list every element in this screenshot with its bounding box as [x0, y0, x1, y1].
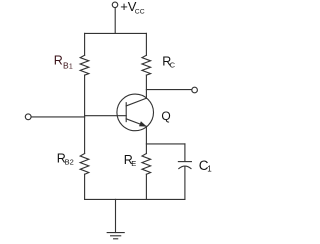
resistor RE: [142, 154, 151, 175]
transistor Q collector diagonal: [126, 98, 146, 106]
wire capacitor bottom lead: [184, 166, 186, 199]
svg-text:E: E: [131, 159, 136, 168]
wire right rail upper: [145, 33, 147, 55]
wire collector rail: [145, 75, 147, 98]
transistor Q emitter arrow: [139, 121, 147, 126]
svg-text:Q: Q: [161, 109, 170, 123]
resistor RC: [142, 55, 151, 75]
svg-text:C: C: [170, 61, 176, 70]
capacitor C1 bottom plate: [179, 166, 191, 169]
capacitor C1 top plate: [178, 161, 191, 163]
wire emitter lead: [145, 126, 147, 153]
transistor Q base bar: [125, 103, 127, 122]
wire left rail lower: [84, 174, 86, 199]
wire left rail middle: [84, 75, 86, 153]
svg-text:R: R: [54, 53, 63, 67]
svg-text:B2: B2: [65, 158, 74, 167]
wire bottom rail: [85, 198, 185, 200]
wire ground stem: [115, 199, 117, 232]
resistor RB1: [80, 55, 89, 75]
wire output branch: [146, 89, 191, 91]
transistor Q emitter diagonal: [126, 119, 146, 127]
resistor RB2: [80, 154, 89, 175]
svg-text:1: 1: [69, 64, 73, 71]
terminal input: [25, 114, 31, 120]
wire Vcc stem: [114, 8, 116, 34]
ground bar 3: [114, 238, 118, 240]
wire emitter to bottom rail: [145, 174, 147, 199]
svg-text:1: 1: [207, 164, 212, 173]
wire top rail: [85, 32, 147, 34]
terminal output: [192, 87, 198, 93]
transistor Q body: [117, 94, 154, 131]
wire capacitor branch horizontal: [146, 143, 185, 145]
terminal Vcc: [112, 2, 118, 8]
wire left rail upper: [84, 33, 86, 55]
svg-text:CC: CC: [135, 8, 145, 15]
ground bar 1: [107, 232, 124, 234]
ground bar 2: [111, 235, 121, 237]
wire input lead: [31, 116, 84, 118]
wire capacitor top lead: [184, 144, 186, 161]
wire base lead: [85, 115, 127, 117]
